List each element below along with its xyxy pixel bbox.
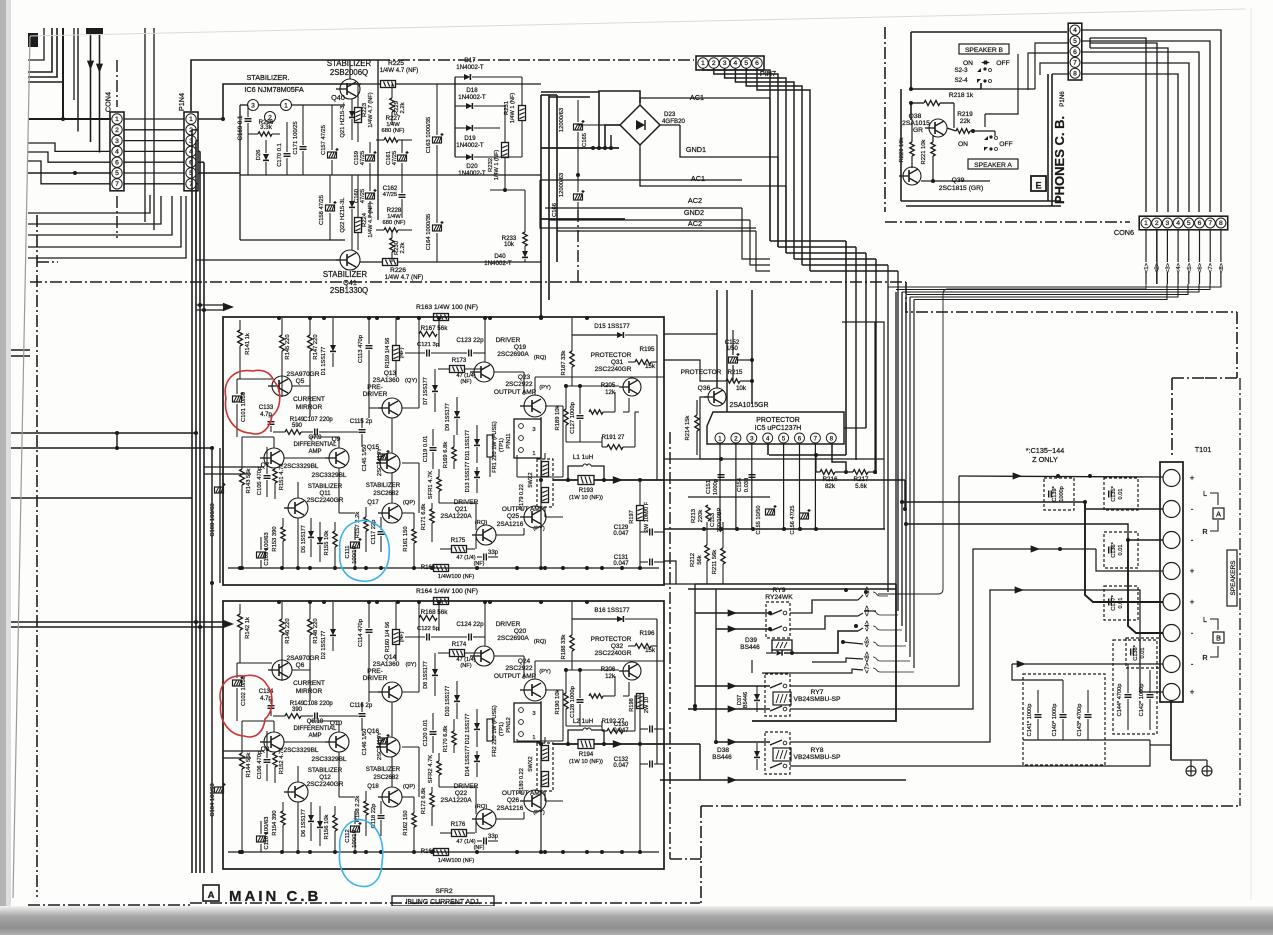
wire left bus dots <box>194 431 198 435</box>
wire stabilizer left rail <box>239 105 241 240</box>
svg-text:1N4002-T: 1N4002-T <box>456 64 484 71</box>
svg-text:D13 1SS177: D13 1SS177 <box>465 462 471 492</box>
svg-text:2SC3329BL: 2SC3329BL <box>283 463 318 470</box>
capacitor C101 <box>233 396 242 402</box>
svg-text:C127 1000p: C127 1000p <box>570 402 576 434</box>
svg-text:D15 1SS177: D15 1SS177 <box>594 323 630 330</box>
svg-text:C153: C153 <box>710 513 716 527</box>
svg-text:C104 100/63: C104 100/63 <box>210 783 216 816</box>
svg-text:STABILIZER: STABILIZER <box>308 768 343 774</box>
svg-text:1N4002-T: 1N4002-T <box>484 260 512 267</box>
transistor Q36 <box>708 388 726 406</box>
wire CON6 bus verticals down <box>901 292 903 626</box>
svg-text:R141 1k: R141 1k <box>245 333 251 355</box>
svg-text:CON4: CON4 <box>104 92 113 112</box>
svg-text:DRIVER: DRIVER <box>363 675 388 682</box>
wire CON6 bundle left <box>888 284 1221 287</box>
svg-text:C108 220p: C108 220p <box>303 701 333 707</box>
svg-text:2: 2 <box>734 436 738 443</box>
svg-text:2SA1015: 2SA1015 <box>902 120 930 127</box>
svg-text:R195: R195 <box>640 346 655 353</box>
annotation blue circle C111 <box>340 520 390 581</box>
capacitor C104 <box>215 787 224 793</box>
svg-text:+: + <box>1190 688 1195 697</box>
dashed resistor pair <box>537 459 553 507</box>
svg-text:3: 3 <box>1166 220 1170 227</box>
chain under phones <box>885 221 1130 223</box>
capacitor C102 <box>233 680 242 686</box>
svg-text:OFF: OFF <box>999 141 1012 148</box>
wire ic5 bottom rail <box>688 496 770 498</box>
svg-text:220k: 220k <box>698 510 704 523</box>
wire lower block outputs <box>664 743 700 745</box>
svg-text:PROTECTOR: PROTECTOR <box>681 369 722 376</box>
svg-text:1/4W100 (NF): 1/4W100 (NF) <box>438 858 475 864</box>
svg-text:R147 220: R147 220 <box>313 334 319 359</box>
svg-text:D40: D40 <box>494 253 506 260</box>
svg-text:R197: R197 <box>629 510 635 523</box>
svg-text:5WX2: 5WX2 <box>528 756 534 771</box>
svg-text:R227: R227 <box>386 115 401 122</box>
svg-text:Q31: Q31 <box>611 359 624 366</box>
svg-text:D19: D19 <box>464 135 476 142</box>
svg-text:1/4W 4.7 (NF): 1/4W 4.7 (NF) <box>385 274 424 281</box>
svg-text:+: + <box>1190 567 1195 576</box>
svg-text:1N4002-T: 1N4002-T <box>456 142 484 149</box>
svg-text:E: E <box>1035 181 1041 191</box>
svg-text:0.01: 0.01 <box>1118 545 1124 556</box>
svg-text:Q13: Q13 <box>384 370 397 377</box>
svg-text:C116 2p: C116 2p <box>350 703 373 709</box>
svg-text:(QY): (QY) <box>405 378 417 384</box>
svg-text:C141* 1000p: C141* 1000p <box>1027 704 1033 737</box>
svg-text:3.3k: 3.3k <box>260 124 273 131</box>
svg-text:C143* 4700p: C143* 4700p <box>1077 704 1083 737</box>
wire P1N6 internal <box>1028 53 1069 90</box>
svg-text:(NF): (NF) <box>460 663 471 669</box>
transistor Q24 <box>524 679 546 701</box>
wire cap cluster rails <box>1012 663 1128 665</box>
svg-text:Q8.10: Q8.10 <box>307 719 324 725</box>
svg-text:R: R <box>1202 653 1207 662</box>
svg-text:D2 1SS177: D2 1SS177 <box>321 631 327 660</box>
svg-text:82k: 82k <box>825 483 836 490</box>
svg-text:590: 590 <box>292 423 303 429</box>
svg-text:L: L <box>1203 615 1207 624</box>
svg-text:R214 15k: R214 15k <box>685 415 691 440</box>
svg-text:+: + <box>1190 598 1195 607</box>
svg-text:6: 6 <box>798 436 802 443</box>
svg-text:Q20: Q20 <box>514 628 527 635</box>
svg-text:R: R <box>1202 527 1207 536</box>
svg-text:(PY): (PY) <box>539 669 551 675</box>
relay RY7 <box>765 674 790 716</box>
svg-text:PROTECTOR: PROTECTOR <box>756 417 799 424</box>
chain stub below CON4 <box>116 196 118 238</box>
svg-text:C112: C112 <box>345 829 351 842</box>
label E box <box>1031 176 1046 191</box>
amp block border upper <box>223 317 664 585</box>
svg-text:VB24SMBU-SP: VB24SMBU-SP <box>793 696 841 703</box>
chain border inner <box>669 432 671 859</box>
svg-text:390: 390 <box>292 707 303 713</box>
wire main mid vertical bus <box>845 241 847 455</box>
svg-text:5: 5 <box>1073 38 1077 45</box>
svg-text:56k: 56k <box>697 555 703 564</box>
svg-text:1/4W100 (NF): 1/4W100 (NF) <box>438 574 475 580</box>
svg-text:R221 10k: R221 10k <box>921 139 927 164</box>
capacitor C139 cluster <box>1044 478 1074 510</box>
svg-text:2SA1216: 2SA1216 <box>497 805 524 812</box>
svg-text:-: - <box>1191 629 1194 638</box>
wire long vertical bus left of amp blocks <box>191 130 193 873</box>
svg-text:DRIVER: DRIVER <box>363 391 388 398</box>
capacitor C137 cluster <box>1104 586 1138 620</box>
svg-text:D18: D18 <box>466 87 478 94</box>
svg-text:1000p: 1000p <box>1059 486 1065 502</box>
svg-text:3: 3 <box>532 427 535 433</box>
bridge rectifier D23 <box>620 105 660 145</box>
svg-text:C156 47/25: C156 47/25 <box>790 506 796 535</box>
svg-text:22k: 22k <box>960 118 971 125</box>
svg-text:GND1: GND1 <box>686 145 706 154</box>
svg-text:C124 22p: C124 22p <box>456 621 484 628</box>
svg-text:R167 56k: R167 56k <box>421 325 449 332</box>
svg-text:4: 4 <box>1176 220 1180 227</box>
capacitor cluster right dashed box <box>1113 640 1157 734</box>
svg-text:4: 4 <box>1073 27 1077 34</box>
wire power top links <box>541 94 557 96</box>
transistor Q14 <box>382 682 402 702</box>
svg-text:5WX2: 5WX2 <box>528 472 534 487</box>
svg-text:R154 390: R154 390 <box>272 810 278 835</box>
svg-text:R151 4.7k: R151 4.7k <box>279 464 285 491</box>
terminal ground 1 <box>1186 766 1196 776</box>
arrow output <box>613 476 623 484</box>
svg-text:Q17: Q17 <box>367 500 379 506</box>
wire top-left cut-off bundle <box>86 28 103 34</box>
transistor Q8 <box>264 732 284 752</box>
svg-text:D1 1SS177: D1 1SS177 <box>321 347 327 376</box>
svg-text:(NF): (NF) <box>399 347 405 358</box>
svg-text:(QP): (QP) <box>403 784 415 790</box>
svg-text:5: 5 <box>1187 220 1191 227</box>
svg-text:0.01: 0.01 <box>1140 648 1146 659</box>
svg-text:C164 1000/35: C164 1000/35 <box>426 214 432 251</box>
label A box <box>1213 508 1224 519</box>
wire main vertical bus x549 <box>548 95 550 300</box>
svg-text:STABILIZER: STABILIZER <box>366 767 401 773</box>
svg-text:MIRROR: MIRROR <box>296 404 323 411</box>
annotation red circle C101 <box>225 370 280 434</box>
svg-text:1/50: 1/50 <box>726 346 738 352</box>
svg-text:PRE-: PRE- <box>367 668 383 675</box>
svg-text:R170 6.8k: R170 6.8k <box>443 726 449 753</box>
wire relay column joins <box>751 660 753 673</box>
svg-text:(NF): (NF) <box>474 845 485 851</box>
svg-text:(RQ): (RQ) <box>534 355 547 361</box>
wire stabilizer ground rail <box>240 174 345 176</box>
svg-text:PROTECTOR: PROTECTOR <box>591 352 632 359</box>
svg-text:R172 6.8k: R172 6.8k <box>421 788 427 815</box>
wire verticals passing right of CON4 <box>144 28 146 222</box>
svg-text:D7 1SS177: D7 1SS177 <box>423 377 429 405</box>
svg-text:PRE-: PRE- <box>367 384 383 391</box>
wire relay ry9 in <box>695 612 770 614</box>
svg-text:Q21 HZ15-3L: Q21 HZ15-3L <box>340 102 346 138</box>
svg-text:C111: C111 <box>345 545 351 558</box>
label B box <box>1213 632 1224 643</box>
svg-text:D8 1SS177: D8 1SS177 <box>423 661 429 689</box>
svg-text:C120 0.01: C120 0.01 <box>423 720 429 747</box>
svg-text:R179 0.22: R179 0.22 <box>519 484 525 510</box>
wire T101 lower feeds <box>1128 663 1163 665</box>
wire heavy verticals lower <box>895 292 897 584</box>
wire amp internals <box>240 378 272 380</box>
svg-text:R142 1k: R142 1k <box>245 617 251 639</box>
wire CON6 tags down <box>1145 229 1147 262</box>
svg-text:8: 8 <box>1073 70 1077 77</box>
svg-text:C170 0.1: C170 0.1 <box>277 143 283 167</box>
svg-text:C140* 1000p: C140* 1000p <box>1052 704 1058 737</box>
svg-text:2SC2240GR: 2SC2240GR <box>595 366 632 373</box>
svg-text:R228: R228 <box>387 207 402 214</box>
svg-text:1: 1 <box>718 436 722 443</box>
svg-text:D9 1SS177: D9 1SS177 <box>445 403 451 431</box>
wire CON6 pin1 long down <box>878 284 1146 594</box>
svg-text:2.2k: 2.2k <box>400 242 406 253</box>
svg-text:R211 56k: R211 56k <box>712 550 718 575</box>
svg-text:S2-4: S2-4 <box>954 77 968 84</box>
relay RY8 <box>765 732 790 774</box>
power supply box outline <box>540 180 756 228</box>
connector CON6 <box>1139 216 1228 230</box>
wire amp internals <box>240 662 272 664</box>
wire ic5 outer loops <box>842 322 884 529</box>
wire relay ry8 in <box>716 741 770 743</box>
wire P1N4 pin1 riser to R225 row <box>223 84 361 119</box>
svg-text:R176: R176 <box>451 822 466 828</box>
svg-text:2: 2 <box>712 60 716 67</box>
svg-text:S2-3: S2-3 <box>954 67 968 74</box>
wire power thick rails <box>541 147 619 149</box>
svg-text:7: 7 <box>115 181 119 188</box>
svg-text:33p: 33p <box>488 834 499 840</box>
svg-text:Q15: Q15 <box>367 444 380 451</box>
svg-text:2SA1216: 2SA1216 <box>497 521 524 528</box>
transistor Q7 <box>264 448 284 468</box>
svg-text:680 (NF): 680 (NF) <box>382 128 405 134</box>
svg-text:R191 27: R191 27 <box>602 435 625 441</box>
wire relay ry7 in <box>695 685 770 687</box>
svg-text:0.047: 0.047 <box>613 763 629 769</box>
arrow input upper block <box>196 304 223 306</box>
diode D20 <box>466 154 472 160</box>
svg-text:1: 1 <box>532 451 535 457</box>
transistor Q40 <box>340 79 360 99</box>
transistor Q21 <box>476 525 496 545</box>
svg-text:Q22: Q22 <box>455 790 468 797</box>
phones board border <box>911 31 1067 33</box>
svg-text:-: - <box>1191 660 1194 669</box>
svg-text:C114 470p: C114 470p <box>358 619 364 647</box>
transistor Q10 <box>329 732 349 752</box>
svg-text:R161 150: R161 150 <box>403 526 409 551</box>
svg-text:10k: 10k <box>736 385 747 392</box>
svg-text:R144 56k: R144 56k <box>246 752 252 777</box>
svg-text:C162: C162 <box>383 185 398 192</box>
svg-text:2SA1360: 2SA1360 <box>373 377 400 384</box>
svg-text:P1N6: P1N6 <box>1059 91 1066 107</box>
wire bottom rail <box>228 851 659 853</box>
svg-text:6: 6 <box>755 60 759 67</box>
svg-text:2SA1220A: 2SA1220A <box>440 797 472 804</box>
wire ry8 out <box>790 590 1008 742</box>
svg-text:6: 6 <box>115 159 119 166</box>
wire r167 row <box>405 352 425 354</box>
svg-text:B16 1SS177: B16 1SS177 <box>594 607 630 614</box>
svg-text:R220 10k: R220 10k <box>899 137 905 162</box>
svg-text:GND2: GND2 <box>684 208 704 217</box>
wire AC bundle to right verticals <box>770 240 846 242</box>
svg-text:3: 3 <box>251 103 255 110</box>
svg-text:DIFFERENTIAL: DIFFERENTIAL <box>293 442 337 448</box>
arrow output <box>613 740 623 748</box>
svg-text:IC5 uPC1237H: IC5 uPC1237H <box>755 425 802 432</box>
svg-text:Q40: Q40 <box>331 93 345 102</box>
svg-text:L2 1uH: L2 1uH <box>573 718 594 725</box>
svg-text:R198: R198 <box>629 698 635 711</box>
chain border jog <box>906 282 1237 312</box>
svg-text:0.047: 0.047 <box>613 531 629 537</box>
svg-text:SPEAKER B: SPEAKER B <box>965 47 1004 54</box>
svg-text:D12 1SS177: D12 1SS177 <box>465 714 471 744</box>
svg-text:0.047: 0.047 <box>613 728 629 734</box>
svg-text:D10 1SS177: D10 1SS177 <box>445 686 451 716</box>
label SPEAKER A <box>968 159 1018 169</box>
svg-text:1000p: 1000p <box>713 479 719 495</box>
svg-text:2SC3329BL: 2SC3329BL <box>311 472 346 479</box>
diode D19 <box>466 125 472 131</box>
svg-text:C121 3p: C121 3p <box>417 342 439 348</box>
svg-text:33p: 33p <box>488 550 499 556</box>
svg-text:0.047: 0.047 <box>613 561 629 567</box>
svg-text:D5 1SS177: D5 1SS177 <box>301 525 307 553</box>
svg-text:C103 100/63: C103 100/63 <box>210 503 216 536</box>
svg-text:Q7.9: Q7.9 <box>308 435 322 441</box>
svg-text:2SC2682: 2SC2682 <box>373 491 399 497</box>
svg-text:R226: R226 <box>390 267 406 274</box>
svg-text:C122 5p: C122 5p <box>417 626 439 632</box>
svg-text:<1>: <1> <box>1144 262 1150 273</box>
svg-text:2SC3329BL: 2SC3329BL <box>283 747 318 754</box>
svg-text:R196: R196 <box>640 630 655 637</box>
svg-text:5: 5 <box>115 170 119 177</box>
wire ry9 out hooks <box>790 600 858 613</box>
svg-text:(QP): (QP) <box>403 500 415 506</box>
svg-text:+: + <box>1190 474 1195 483</box>
svg-text:1: 1 <box>532 735 535 741</box>
capacitor C103 <box>215 487 224 493</box>
svg-text:(PY): (PY) <box>539 385 551 391</box>
transistor Q41 <box>340 250 360 270</box>
svg-text:SFR2 4.7K: SFR2 4.7K <box>428 755 434 784</box>
wire upper block outputs <box>664 479 905 481</box>
svg-text:<6>: <6> <box>864 636 871 647</box>
label MAIN C.B <box>203 885 219 901</box>
svg-text:Q26: Q26 <box>507 797 520 804</box>
svg-text:2W 10M/0 F: 2W 10M/0 F <box>644 501 650 532</box>
svg-text:R162 150: R162 150 <box>403 810 409 835</box>
chain border phones left <box>884 27 886 212</box>
svg-text:L: L <box>1203 489 1207 498</box>
svg-text:RY24WK: RY24WK <box>765 594 793 601</box>
capacitor C136 cluster <box>1104 532 1138 568</box>
resistor R194 <box>553 743 578 745</box>
wire T101 feeds <box>900 500 904 504</box>
svg-text:5.6k: 5.6k <box>855 483 868 490</box>
svg-text:12000/63: 12000/63 <box>559 108 565 132</box>
wire ic5 pin4 heavy <box>767 443 769 455</box>
svg-text:PIN11: PIN11 <box>506 433 512 448</box>
svg-text:-: - <box>1191 505 1194 514</box>
wire main vertical bus x541 <box>540 95 542 317</box>
connector PIN11 <box>514 419 541 458</box>
svg-text:R180 0.22: R180 0.22 <box>519 768 525 794</box>
svg-text:C105 470p: C105 470p <box>257 467 263 495</box>
wire P1N4 right exits <box>198 118 223 120</box>
svg-text:R175: R175 <box>451 538 466 544</box>
svg-text:OFF: OFF <box>996 60 1009 67</box>
transistor Q26 <box>524 790 546 812</box>
svg-text:7: 7 <box>814 436 818 443</box>
svg-text:D11 1SS177: D11 1SS177 <box>465 430 471 460</box>
svg-text:C166: C166 <box>552 203 558 217</box>
svg-text:1: 1 <box>1144 220 1148 227</box>
svg-text:D14 1SS177: D14 1SS177 <box>465 746 471 776</box>
svg-text:R148 220: R148 220 <box>313 618 319 643</box>
capacitor C112 <box>351 826 360 832</box>
svg-text:(1W 10 (NF)): (1W 10 (NF)) <box>569 759 603 765</box>
svg-text:OUTPUT AMP: OUTPUT AMP <box>494 673 536 680</box>
diode D6 <box>317 537 323 543</box>
svg-text:B5446: B5446 <box>743 692 749 708</box>
capacitor C135 cluster <box>1104 478 1138 510</box>
capacitor C138 cluster <box>1126 638 1160 668</box>
svg-text:C115 2p: C115 2p <box>350 419 373 425</box>
svg-text:1/4W 4.7 (NF): 1/4W 4.7 (NF) <box>380 67 419 74</box>
svg-text:R155 10k: R155 10k <box>324 530 330 555</box>
svg-text:R173: R173 <box>452 358 467 364</box>
chain border mid horizontal <box>30 281 906 283</box>
svg-text:C155 10/50: C155 10/50 <box>756 506 762 535</box>
wire Q36 base loop <box>700 397 721 459</box>
wire left nest lower <box>28 195 150 213</box>
svg-text:R193: R193 <box>579 488 594 494</box>
transistor Q19 <box>474 362 494 382</box>
svg-text:(TP1): (TP1) <box>499 438 505 452</box>
svg-text:2SC1815 (GR): 2SC1815 (GR) <box>939 185 983 192</box>
svg-text:1N4002-T: 1N4002-T <box>458 170 486 177</box>
svg-text:12k: 12k <box>605 674 616 680</box>
svg-text:(NF): (NF) <box>474 561 485 567</box>
svg-text:2SA1360: 2SA1360 <box>373 661 400 668</box>
svg-text:<4>: <4> <box>1176 262 1182 273</box>
svg-text:CURRENT: CURRENT <box>293 680 325 687</box>
svg-text:<8>: <8> <box>1219 262 1225 273</box>
svg-text:(NF): (NF) <box>460 379 471 385</box>
svg-text:AC2: AC2 <box>688 196 702 205</box>
